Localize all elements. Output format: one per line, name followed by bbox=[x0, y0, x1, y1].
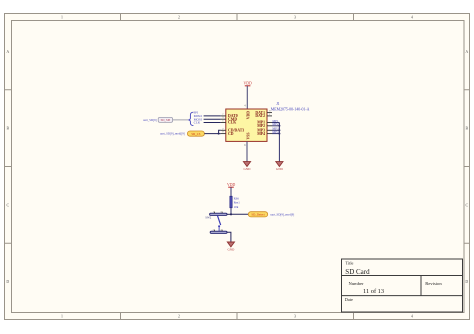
svg-text:CD: CD bbox=[228, 132, 234, 136]
svg-text:C: C bbox=[6, 203, 9, 207]
svg-text:11 of 13: 11 of 13 bbox=[363, 288, 384, 295]
pin DAT0 bbox=[221, 113, 238, 118]
svg-text:GND: GND bbox=[244, 167, 252, 171]
wire node to SD_Detect bbox=[231, 213, 248, 215]
svg-text:CLK: CLK bbox=[194, 121, 201, 125]
svg-text:Date: Date bbox=[345, 297, 353, 302]
wire MP1 to bus bbox=[272, 122, 279, 124]
svg-text:uart_SD[9]: uart_SD[9] bbox=[143, 118, 157, 122]
svg-text:C: C bbox=[465, 203, 468, 207]
wire VDD to R36 bbox=[230, 187, 232, 196]
lever bbox=[217, 215, 220, 225]
svg-text:SD_CS: SD_CS bbox=[191, 132, 200, 136]
power port VDD (switch circuit) bbox=[227, 183, 235, 187]
bottom bar pins bbox=[214, 230, 216, 232]
wire J1 VSS to GND bbox=[246, 141, 248, 161]
svg-text:VDD: VDD bbox=[243, 81, 251, 85]
junction bbox=[218, 133, 220, 135]
wire VDD to J1 pin 4 bbox=[246, 86, 248, 109]
svg-text:VDD: VDD bbox=[227, 183, 235, 187]
svg-text:GND: GND bbox=[227, 247, 235, 251]
svg-text:SD_SPI: SD_SPI bbox=[161, 118, 171, 122]
pin MP1 bbox=[257, 121, 272, 125]
pin CD/DAT3 bbox=[221, 127, 244, 132]
wire MP4 to bus bbox=[272, 133, 279, 135]
svg-text:D: D bbox=[465, 280, 468, 284]
wire SD_CS to CD pin bbox=[204, 133, 220, 135]
svg-text:B: B bbox=[465, 127, 468, 131]
wire CLK bbox=[204, 122, 221, 124]
pin CMD bbox=[221, 116, 238, 121]
ground (under J1) bbox=[243, 162, 251, 171]
svg-text:GND: GND bbox=[276, 167, 284, 171]
title block bbox=[342, 259, 463, 312]
wire MP2 to bus bbox=[272, 125, 279, 127]
svg-text:SD Card: SD Card bbox=[345, 268, 370, 276]
wire MP bus to GND bbox=[278, 123, 280, 162]
pin MP2 bbox=[257, 124, 272, 128]
svg-text:B: B bbox=[6, 127, 9, 131]
svg-text:uart_SD[9]_mod[9]: uart_SD[9]_mod[9] bbox=[270, 213, 294, 217]
svg-text:10k: 10k bbox=[234, 205, 239, 209]
ground (switch) bbox=[227, 242, 235, 251]
svg-text:Number: Number bbox=[349, 281, 365, 286]
svg-text:Title: Title bbox=[346, 261, 354, 266]
net label SD_CS bbox=[187, 131, 204, 136]
wire jog to CD/DAT3 bbox=[219, 130, 221, 133]
svg-text:4: 4 bbox=[411, 314, 413, 318]
svg-text:DAT2: DAT2 bbox=[255, 114, 265, 118]
svg-text:Revision: Revision bbox=[425, 281, 442, 286]
svg-text:SD_Detect: SD_Detect bbox=[251, 213, 264, 217]
top bar pins bbox=[214, 212, 216, 214]
pin DAT1 bbox=[255, 110, 272, 115]
svg-text:2: 2 bbox=[178, 314, 180, 318]
svg-text:1: 1 bbox=[61, 314, 63, 318]
svg-text:uart_SD[9]_mod([9]: uart_SD[9]_mod([9] bbox=[160, 132, 185, 136]
net label SD_Detect bbox=[248, 212, 267, 217]
junction MP4 bbox=[278, 133, 280, 135]
svg-text:VSS: VSS bbox=[246, 133, 250, 140]
top bar bbox=[210, 213, 227, 215]
svg-text:1: 1 bbox=[61, 16, 63, 20]
svg-text:SW2: SW2 bbox=[205, 216, 212, 220]
svg-text:MEM2075-00-140-01-A: MEM2075-00-140-01-A bbox=[271, 107, 310, 111]
pin MP4 bbox=[257, 132, 272, 136]
svg-text:A: A bbox=[465, 50, 468, 54]
connector J1 MEM2075 body bbox=[226, 109, 267, 141]
pin CLK bbox=[221, 120, 236, 125]
svg-text:MP2: MP2 bbox=[257, 124, 265, 128]
wire MOSI bbox=[204, 118, 221, 120]
svg-text:D: D bbox=[6, 280, 9, 284]
resistor R36 bbox=[230, 196, 240, 209]
junction MP3 bbox=[278, 129, 280, 131]
svg-text:2: 2 bbox=[178, 16, 180, 20]
wire SD_SPI to harness brace bbox=[173, 119, 188, 121]
svg-text:MP4: MP4 bbox=[257, 132, 265, 136]
wire R36 to node bbox=[230, 208, 232, 215]
junction node bbox=[230, 213, 232, 215]
pin CD bbox=[221, 131, 234, 136]
svg-text:3: 3 bbox=[294, 16, 296, 20]
power port VDD (top) bbox=[243, 81, 251, 85]
pin DAT2 bbox=[255, 113, 272, 118]
svg-text:VDD: VDD bbox=[246, 111, 250, 119]
wire MP3 to bus bbox=[272, 129, 279, 131]
wire MISO bbox=[204, 115, 221, 117]
ground (MP bus) bbox=[276, 162, 284, 171]
junction MP2 bbox=[278, 125, 280, 127]
svg-text:CLK: CLK bbox=[228, 121, 236, 125]
harness connector SD_SPI bbox=[158, 117, 172, 122]
svg-text:J1: J1 bbox=[276, 102, 279, 106]
wire node to switch top bar bbox=[227, 213, 231, 215]
bottom bar bbox=[210, 231, 227, 233]
svg-text:A: A bbox=[6, 50, 9, 54]
svg-text:3: 3 bbox=[294, 314, 296, 318]
pin MP3 bbox=[257, 129, 272, 133]
wire switch bottom to GND bbox=[227, 232, 231, 242]
harness brace bbox=[188, 112, 193, 125]
switch SW2 bbox=[205, 211, 227, 233]
svg-text:4: 4 bbox=[411, 16, 413, 20]
